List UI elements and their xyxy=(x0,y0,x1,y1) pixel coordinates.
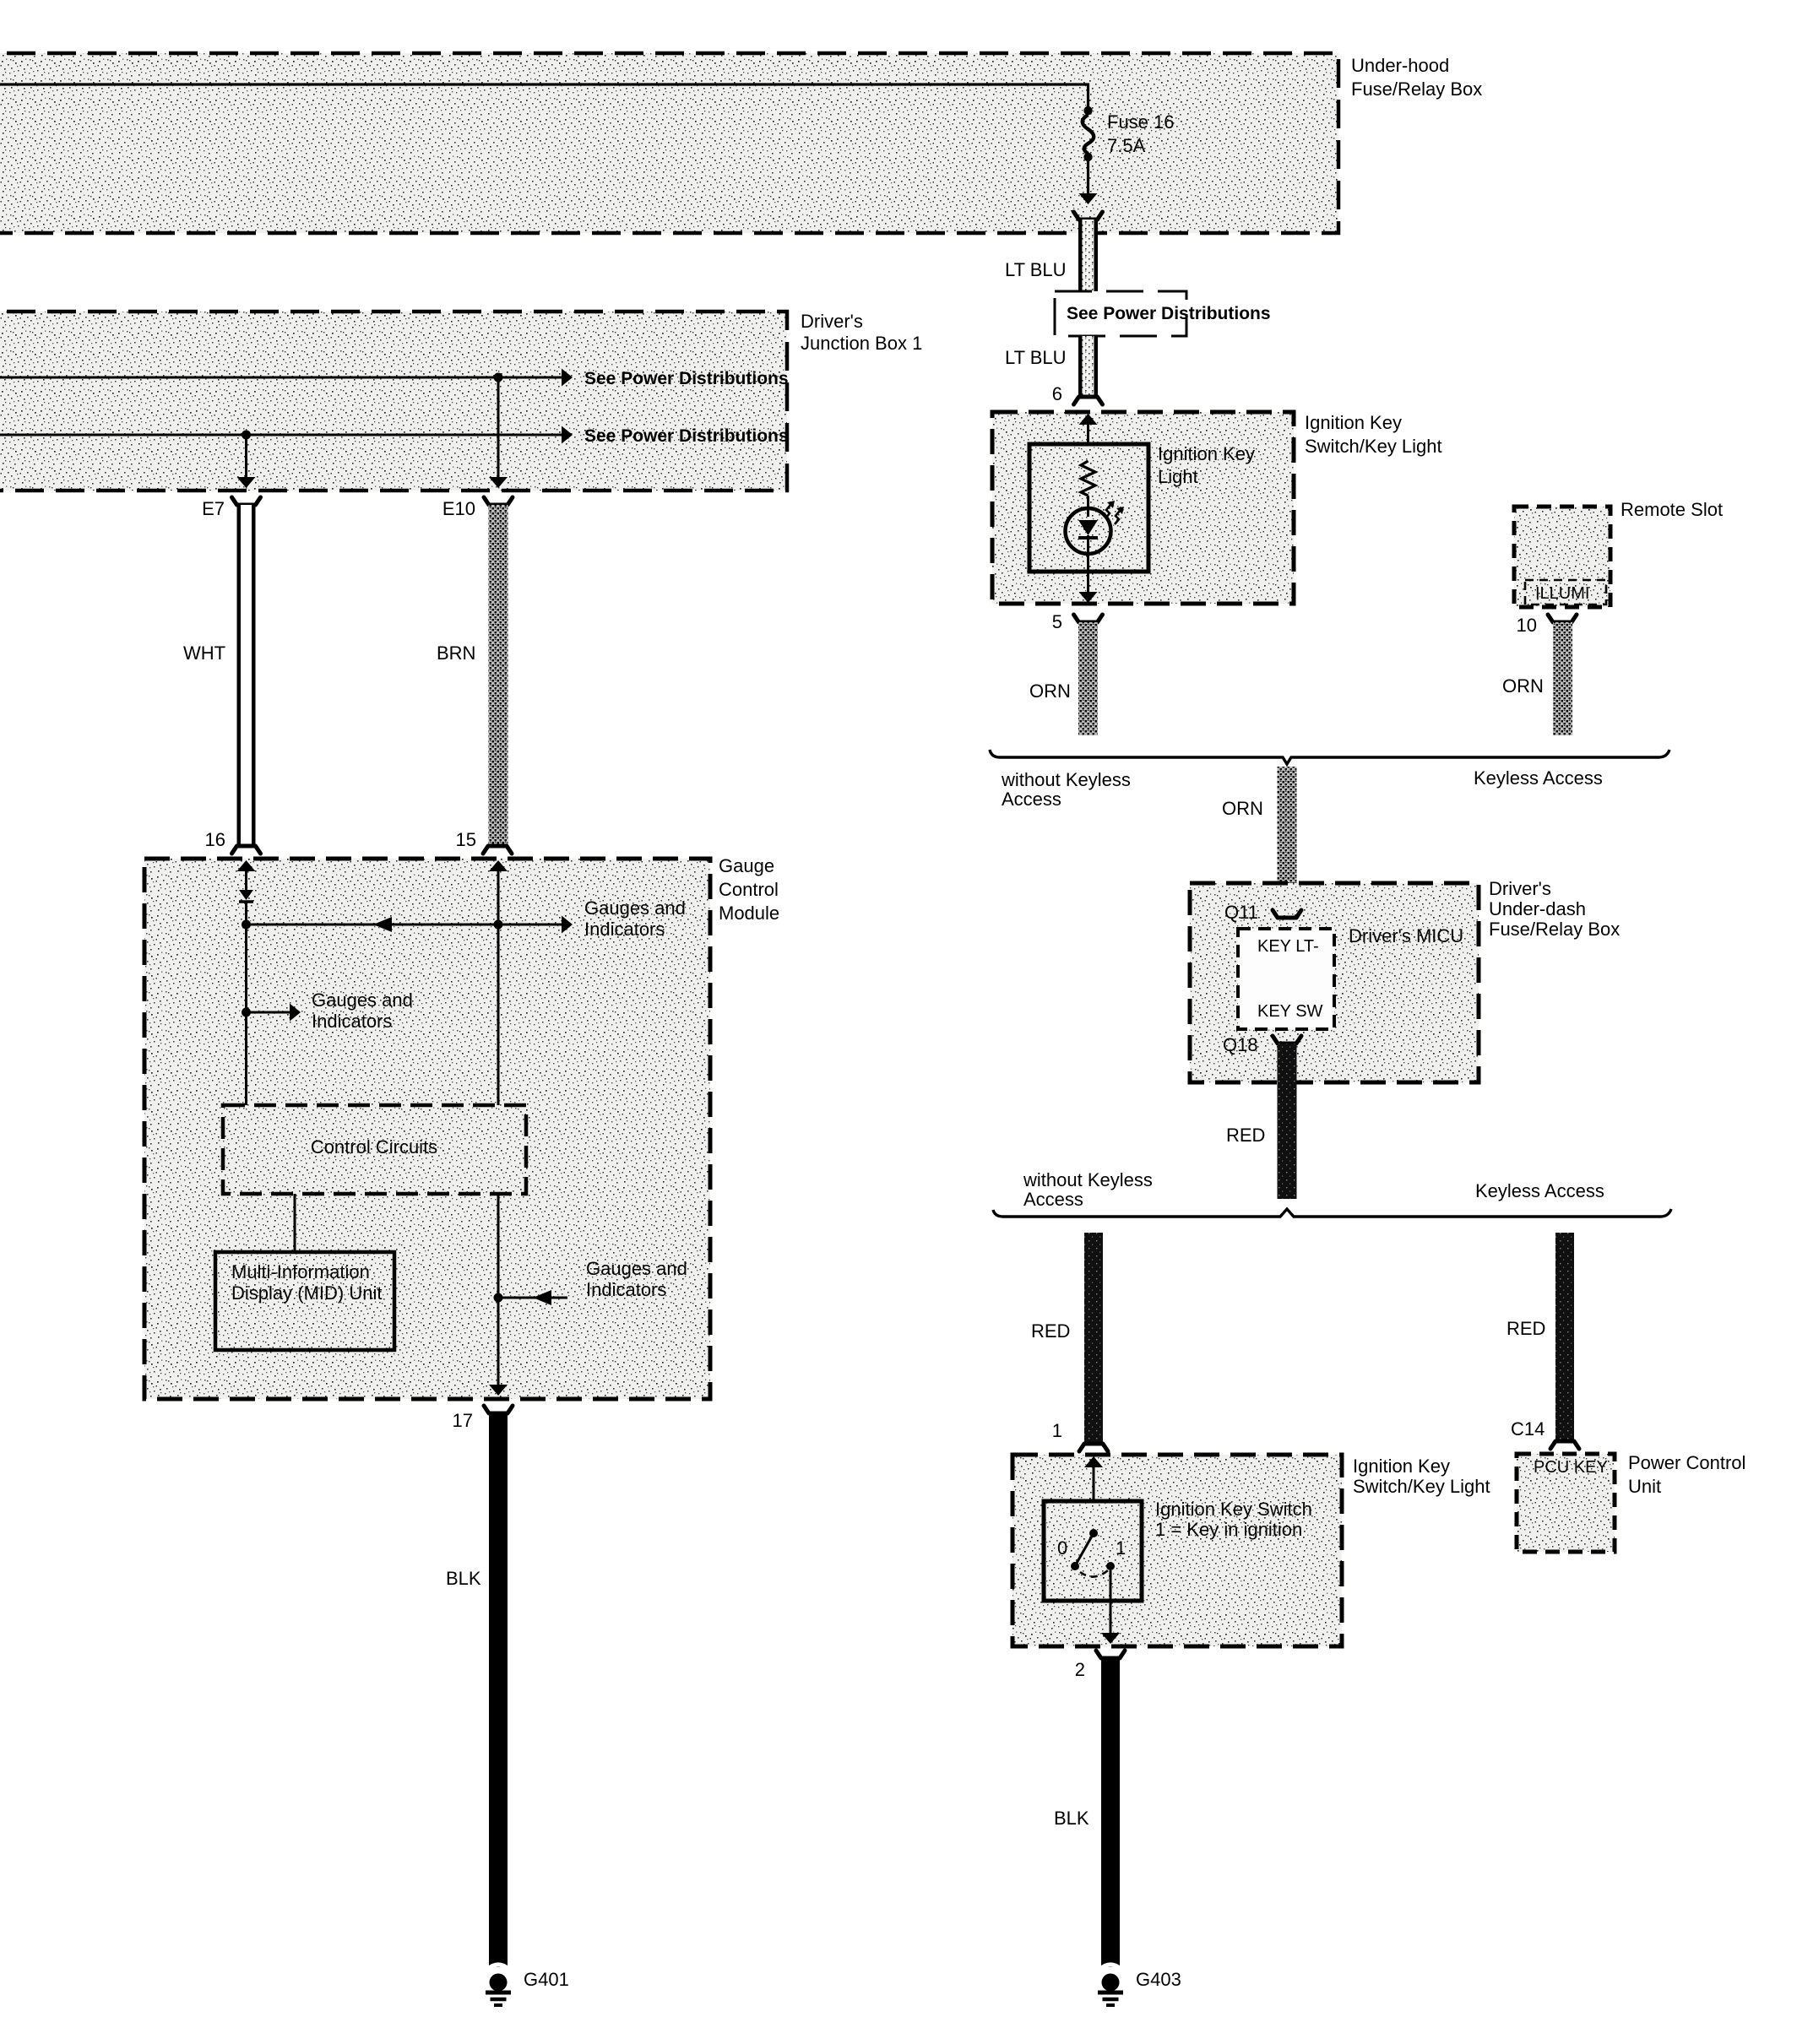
wire: LED to pin 5 xyxy=(1079,554,1098,603)
connector: pin 2 xyxy=(1096,1651,1125,1658)
label: BLK (right) xyxy=(1054,1808,1089,1829)
box: Gauge Control Module xyxy=(144,859,710,1399)
svg-text:1 = Key in ignition: 1 = Key in ignition xyxy=(1155,1519,1302,1540)
svg-text:Under-hood: Under-hood xyxy=(1351,55,1449,76)
connector: top of LT BLU wire xyxy=(1074,212,1103,220)
label: pin E7 xyxy=(202,498,225,519)
node: fuse top terminal xyxy=(1083,106,1092,115)
svg-text:17: 17 xyxy=(453,1410,473,1431)
svg-text:See Power Distributions: See Power Distributions xyxy=(584,369,789,388)
node: left wire junction (mid) xyxy=(242,1008,251,1017)
svg-text:ORN: ORN xyxy=(1222,798,1263,819)
svg-text:Unit: Unit xyxy=(1628,1476,1661,1497)
label: Gauges and Indicators (lower) xyxy=(586,1258,687,1300)
wire: junction box bus B xyxy=(0,426,573,444)
svg-text:Access: Access xyxy=(1023,1189,1083,1210)
wire: bus line inside under-hood box xyxy=(0,84,1089,106)
fuse Fuse 16 7.5A xyxy=(1083,115,1094,154)
svg-text:Access: Access xyxy=(1002,789,1061,810)
wire: pin 6 into key light xyxy=(1079,414,1098,461)
svg-text:Gauges and: Gauges and xyxy=(584,897,686,919)
label: BRN xyxy=(437,642,475,664)
svg-text:ILLUMI: ILLUMI xyxy=(1535,584,1589,603)
resistor: key light series resistor xyxy=(1081,461,1095,496)
wire WHT (E7 to gauge 16) xyxy=(237,505,256,844)
connector: pin 6 xyxy=(1074,397,1103,404)
wire: pin 1 into switch xyxy=(1084,1456,1103,1530)
node: left wire junction (upper) xyxy=(242,920,251,930)
label: pin E10 xyxy=(442,498,475,519)
label: pin Q11 xyxy=(1224,902,1258,923)
wire: tap to E10 xyxy=(489,377,508,488)
svg-text:Switch/Key Light: Switch/Key Light xyxy=(1305,436,1442,457)
label: Gauge Control Module xyxy=(719,855,779,924)
label: Driver's Under-dash Fuse/Relay Box xyxy=(1489,878,1620,940)
svg-text:KEY SW: KEY SW xyxy=(1257,1002,1323,1021)
box: Power Control Unit xyxy=(1517,1454,1615,1552)
connector: pin 1 xyxy=(1079,1444,1108,1451)
ground G401 xyxy=(486,1965,511,2005)
svg-text:E7: E7 xyxy=(202,498,225,519)
label: Keyless Access (upper) xyxy=(1474,767,1603,789)
svg-text:1: 1 xyxy=(1116,1537,1126,1559)
label: Power Control Unit xyxy=(1628,1452,1745,1497)
connector: pin 10 xyxy=(1548,615,1577,622)
label: Gauges and Indicators (mid) xyxy=(312,989,413,1032)
svg-text:ORN: ORN xyxy=(1502,675,1544,697)
svg-text:Remote Slot: Remote Slot xyxy=(1621,499,1723,520)
svg-text:Gauge: Gauge xyxy=(719,855,774,876)
brace: variant split (upper) xyxy=(990,750,1669,764)
svg-text:1: 1 xyxy=(1052,1420,1062,1441)
label: Ignition Key Switch/Key Light (lower) xyxy=(1353,1456,1490,1497)
box: ignition key switch body xyxy=(1044,1501,1142,1601)
wire BRN (E10 to gauge 15) xyxy=(489,505,508,844)
svg-text:without Keyless: without Keyless xyxy=(1001,769,1131,790)
wire BLK (ignition switch to G403) xyxy=(1101,1658,1120,1967)
wire RED (Q18 down) xyxy=(1278,1044,1297,1199)
wire: control circuits to pin 17 xyxy=(489,1194,508,1396)
connector: pin Q11 xyxy=(1273,910,1301,918)
svg-text:Keyless Access: Keyless Access xyxy=(1474,767,1603,789)
connector: pin 16 xyxy=(232,846,261,854)
svg-text:Indicators: Indicators xyxy=(586,1279,666,1300)
wire: stub to gauges and indicators (mid) xyxy=(247,1004,301,1022)
label: RED (right) xyxy=(1507,1318,1545,1339)
svg-text:RED: RED xyxy=(1031,1320,1070,1342)
connector: pin Q18 xyxy=(1273,1036,1301,1044)
label: See Power Distributions (bus A) xyxy=(584,369,789,388)
label: ILLUMI xyxy=(1535,584,1589,603)
wire: stub from gauges and indicators (lower) xyxy=(498,1290,567,1305)
label: ORN (left) xyxy=(1029,680,1071,702)
label: without Keyless Access (lower) xyxy=(1023,1169,1153,1210)
svg-text:BLK: BLK xyxy=(1054,1808,1089,1829)
connector: pin 15 xyxy=(483,846,512,854)
label: See Power Distributions (middle) xyxy=(1067,304,1271,323)
wire LT BLU lower segment xyxy=(1078,336,1098,398)
label: PCU KEY terminal xyxy=(1534,1458,1608,1477)
wire BLK (pin 17 to G401) xyxy=(489,1413,508,1967)
svg-text:KEY LT-: KEY LT- xyxy=(1257,937,1319,956)
wire: resistor to LED xyxy=(1087,496,1089,517)
box: Ignition Key Switch/Key Light (upper) xyxy=(992,412,1294,604)
svg-text:7.5A: 7.5A xyxy=(1107,135,1146,156)
label: pin 5 xyxy=(1052,611,1062,632)
label: pin 16 xyxy=(205,829,225,850)
label: G403 xyxy=(1136,1969,1181,1990)
svg-text:LT BLU: LT BLU xyxy=(1005,347,1067,368)
connector: pin 5 xyxy=(1074,615,1103,622)
box: Under-hood Fuse/Relay Box xyxy=(0,53,1338,233)
label: ORN (remote slot) xyxy=(1502,675,1544,697)
box: Remote Slot xyxy=(1514,507,1610,607)
svg-text:ORN: ORN xyxy=(1029,680,1071,702)
wire LT BLU upper segment xyxy=(1078,220,1098,295)
label: BLK (left) xyxy=(446,1568,481,1589)
svg-text:Fuse/Relay Box: Fuse/Relay Box xyxy=(1351,79,1482,100)
svg-text:Multi-Information: Multi-Information xyxy=(231,1261,370,1282)
svg-text:Driver's: Driver's xyxy=(801,311,863,332)
svg-text:Under-dash: Under-dash xyxy=(1489,898,1586,919)
svg-text:Control Circuits: Control Circuits xyxy=(311,1136,437,1158)
connector: pin E7 xyxy=(232,497,261,505)
svg-text:Gauges and: Gauges and xyxy=(586,1258,687,1279)
LED: ignition key light bulb xyxy=(1066,501,1125,554)
svg-text:Ignition Key Switch: Ignition Key Switch xyxy=(1155,1499,1312,1520)
box: Driver's Under-dash Fuse/Relay Box xyxy=(1190,883,1479,1082)
box: Driver's Junction Box 1 xyxy=(0,312,787,491)
svg-text:BLK: BLK xyxy=(446,1568,481,1589)
connector: pin E10 xyxy=(484,497,513,505)
box: Control Circuits xyxy=(223,1105,526,1194)
label: Under-hood Fuse/Relay Box xyxy=(1351,55,1482,100)
wire: tap to E7 xyxy=(237,435,256,488)
node: bus B tap xyxy=(242,431,251,440)
svg-text:Driver's MICU: Driver's MICU xyxy=(1349,925,1463,946)
label: pin 10 xyxy=(1517,615,1537,636)
label: WHT xyxy=(183,642,225,664)
label: KEY SW terminal xyxy=(1257,1002,1323,1021)
label: RED (left) xyxy=(1031,1320,1070,1342)
diode: module input diode xyxy=(239,890,253,902)
node: bus A tap xyxy=(494,373,503,382)
svg-text:without Keyless: without Keyless xyxy=(1023,1169,1153,1190)
label: Gauges and Indicators (upper) xyxy=(584,897,686,940)
svg-text:Q18: Q18 xyxy=(1223,1034,1258,1055)
svg-text:0: 0 xyxy=(1057,1537,1067,1559)
svg-text:LT BLU: LT BLU xyxy=(1005,259,1067,280)
label: Control Circuits xyxy=(311,1136,437,1158)
wire: diode to control circuits xyxy=(245,902,247,1105)
label: RED (middle) xyxy=(1226,1125,1265,1146)
svg-text:G401: G401 xyxy=(524,1969,569,1990)
svg-text:Light: Light xyxy=(1158,466,1198,487)
wire RED (to ignition key switch pin 1) xyxy=(1084,1233,1103,1444)
wire: control circuits to MID unit xyxy=(294,1194,296,1252)
label: Remote Slot xyxy=(1621,499,1723,520)
label: LT BLU (lower) xyxy=(1005,347,1067,368)
svg-text:Q11: Q11 xyxy=(1224,902,1258,923)
svg-text:Module: Module xyxy=(719,903,779,924)
svg-text:Power Control: Power Control xyxy=(1628,1452,1745,1473)
svg-text:Indicators: Indicators xyxy=(584,919,665,940)
svg-text:C14: C14 xyxy=(1511,1418,1545,1439)
svg-text:Indicators: Indicators xyxy=(312,1011,392,1032)
wire ORN (remote slot) xyxy=(1553,622,1572,735)
box: ILLUMI terminal xyxy=(1525,580,1606,605)
switch: key-in detection xyxy=(1071,1529,1115,1577)
label: without Keyless Access (upper) xyxy=(1001,769,1131,810)
wire: fuse to connector xyxy=(1079,161,1098,204)
svg-text:Fuse/Relay Box: Fuse/Relay Box xyxy=(1489,919,1620,940)
svg-text:16: 16 xyxy=(205,829,225,850)
connector: pin 17 xyxy=(484,1406,513,1413)
wire: cross link to gauges and indicators (upper) xyxy=(247,916,573,934)
box: Ignition Key Light xyxy=(1029,444,1148,572)
svg-text:10: 10 xyxy=(1517,615,1537,636)
connector: pin C14 xyxy=(1550,1441,1579,1449)
node: right wire junction (lower) xyxy=(494,1293,503,1303)
box: Multi-Information Display (MID) Unit xyxy=(215,1252,394,1350)
label: pin 6 xyxy=(1052,383,1062,404)
label: ORN (middle) xyxy=(1222,798,1263,819)
label: Keyless Access (lower) xyxy=(1475,1180,1604,1201)
label: Ignition Key Switch 1 = Key in ignition xyxy=(1155,1499,1312,1540)
svg-text:RED: RED xyxy=(1507,1318,1545,1339)
svg-text:Ignition Key: Ignition Key xyxy=(1353,1456,1450,1477)
label: KEY LT- terminal xyxy=(1257,937,1319,956)
label: Driver's Junction Box 1 xyxy=(801,311,922,354)
svg-text:Fuse 16: Fuse 16 xyxy=(1107,111,1175,133)
label: Driver's MICU xyxy=(1349,925,1463,946)
wire: pin 15 into module xyxy=(489,860,508,1105)
wire: pin 16 into module xyxy=(237,860,256,890)
label: Multi-Information Display (MID) Unit xyxy=(231,1261,382,1304)
node: fuse bottom terminal xyxy=(1083,153,1092,161)
box: Ignition Key Switch/Key Light (lower) xyxy=(1013,1455,1342,1646)
label: See Power Distributions (bus B) xyxy=(584,426,789,446)
wire ORN (to Q11) xyxy=(1278,767,1297,914)
svg-text:WHT: WHT xyxy=(183,642,225,664)
label: pin 17 xyxy=(453,1410,473,1431)
svg-text:6: 6 xyxy=(1052,383,1062,404)
svg-text:2: 2 xyxy=(1075,1659,1085,1680)
label: Ignition Key Light xyxy=(1158,443,1255,487)
wire RED (to PCU C14) xyxy=(1555,1233,1574,1441)
ground G403 xyxy=(1098,1965,1123,2005)
svg-text:Junction Box 1: Junction Box 1 xyxy=(801,333,922,354)
svg-text:15: 15 xyxy=(456,829,476,850)
box: See Power Distributions reference xyxy=(1055,291,1186,336)
box: Driver's MICU xyxy=(1238,929,1334,1029)
label: pin 1 xyxy=(1052,1420,1062,1441)
svg-text:Ignition Key: Ignition Key xyxy=(1158,443,1255,464)
svg-text:Gauges and: Gauges and xyxy=(312,989,413,1011)
svg-text:5: 5 xyxy=(1052,611,1062,632)
svg-text:See Power Distributions: See Power Distributions xyxy=(1067,304,1271,323)
svg-text:RED: RED xyxy=(1226,1125,1265,1146)
svg-text:BRN: BRN xyxy=(437,642,475,664)
svg-text:Keyless Access: Keyless Access xyxy=(1475,1180,1604,1201)
label: Fuse 16 7.5A xyxy=(1107,111,1175,156)
svg-text:G403: G403 xyxy=(1136,1969,1181,1990)
wire: switch to pin 2 xyxy=(1101,1570,1120,1644)
wire ORN (left, below key light) xyxy=(1078,622,1098,735)
wire: junction box bus A xyxy=(0,369,573,387)
svg-text:Switch/Key Light: Switch/Key Light xyxy=(1353,1476,1490,1497)
label: LT BLU (upper) xyxy=(1005,259,1067,280)
svg-text:Control: Control xyxy=(719,879,779,900)
svg-text:Display (MID) Unit: Display (MID) Unit xyxy=(231,1282,382,1304)
brace: variant split (lower) xyxy=(993,1209,1671,1217)
label: switch position 0 xyxy=(1057,1537,1067,1559)
svg-text:PCU KEY: PCU KEY xyxy=(1534,1458,1608,1477)
label: G401 xyxy=(524,1969,569,1990)
label: pin 2 xyxy=(1075,1659,1085,1680)
svg-text:See Power Distributions: See Power Distributions xyxy=(584,426,789,446)
label: pin 15 xyxy=(456,829,476,850)
label: switch position 1 xyxy=(1116,1537,1126,1559)
svg-text:Driver's: Driver's xyxy=(1489,878,1551,899)
node: right wire junction (upper) xyxy=(494,920,503,930)
label: pin C14 xyxy=(1511,1418,1545,1439)
label: pin Q18 xyxy=(1223,1034,1258,1055)
svg-text:E10: E10 xyxy=(442,498,475,519)
svg-text:Ignition Key: Ignition Key xyxy=(1305,412,1402,433)
label: Ignition Key Switch/Key Light (upper) xyxy=(1305,412,1442,457)
